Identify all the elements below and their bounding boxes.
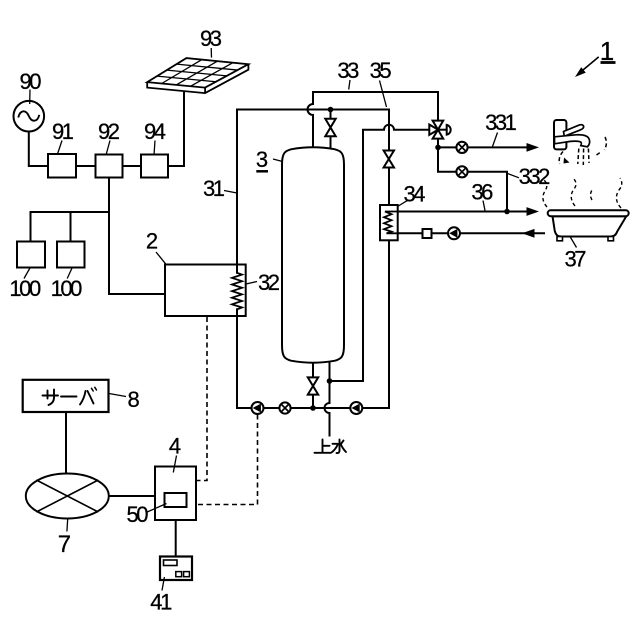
leader 34 xyxy=(398,200,409,207)
communication unit 50 xyxy=(165,493,187,507)
label server text (katakana drawn strokes) xyxy=(43,387,97,405)
label tap water text (kanji drawn strokes) xyxy=(315,440,347,454)
arrowhead bath return xyxy=(522,229,535,238)
small spray arrow under faucet xyxy=(564,158,570,164)
arrowhead line 36 xyxy=(527,207,540,216)
svg-text:0: 0 xyxy=(29,276,41,301)
faucet icon xyxy=(554,120,590,149)
svg-text:1: 1 xyxy=(505,110,517,135)
wire: box 92 to 94 xyxy=(123,165,142,167)
heat pump unit 2 xyxy=(165,265,246,317)
svg-text:3: 3 xyxy=(210,26,222,51)
steam wisp left of faucet xyxy=(559,152,563,165)
pump (bottom left) xyxy=(252,402,264,414)
leader 90 xyxy=(29,90,31,105)
svg-text:3: 3 xyxy=(256,147,268,172)
component box on return line xyxy=(423,229,432,238)
pipe 31 right vertical (through valve, HX 34) xyxy=(388,110,390,409)
svg-text:1: 1 xyxy=(213,176,225,201)
node on pipe 35 xyxy=(328,107,334,113)
steam above bathtub xyxy=(543,180,547,207)
node below three-way valve xyxy=(435,145,441,151)
leader 35 xyxy=(380,81,387,108)
svg-text:2: 2 xyxy=(146,228,158,253)
shut valve circle (bottom pipe) xyxy=(279,402,290,413)
network ellipse 7 xyxy=(26,474,109,519)
bathtub 37 xyxy=(548,210,629,241)
leader 94 xyxy=(154,141,155,156)
svg-text:1: 1 xyxy=(62,119,74,144)
controller box 4 xyxy=(155,467,196,521)
pipe: tank bottom valve to bottom pipe xyxy=(312,358,314,408)
svg-text:6: 6 xyxy=(481,179,493,204)
node on line 36 xyxy=(504,209,510,215)
svg-text:2: 2 xyxy=(538,164,550,189)
pipe: bathtub return to heat exchanger 34 xyxy=(384,232,544,234)
leader 8 xyxy=(109,394,126,397)
leader 50 xyxy=(146,504,167,513)
wire: box 92 down to heat pump 2 xyxy=(109,178,165,295)
steam marks right of faucet xyxy=(605,137,607,150)
pipe: tank top valve branch from node on pipe 35 xyxy=(330,110,332,152)
svg-text:0: 0 xyxy=(136,502,148,527)
valve (tank top) xyxy=(325,119,335,136)
wire: power line AC source to box 91 xyxy=(29,132,48,166)
wire: controller 4 to remote 41 xyxy=(175,520,177,557)
AC source 90 xyxy=(13,101,44,132)
valve (tank bottom) xyxy=(308,377,318,394)
pipe 33: tank top to line 33 with hop over pipe 35 xyxy=(308,92,439,148)
heat exchanger 34 xyxy=(380,205,398,240)
svg-text:7: 7 xyxy=(58,531,71,558)
solar panel 93 xyxy=(147,64,248,93)
wire: box 91 to 92 xyxy=(76,165,96,167)
load box 100 (left) xyxy=(17,242,45,268)
wire: server 8 to network 7 xyxy=(65,412,67,474)
shut valve circle (line 332) xyxy=(456,166,467,177)
node at tap water junction xyxy=(327,378,333,384)
leader 93 xyxy=(210,48,212,58)
leader 36 xyxy=(483,201,485,211)
leader 91 xyxy=(58,141,63,155)
underline of label 1 xyxy=(601,61,616,64)
node at tank bottom xyxy=(310,405,316,411)
underline of label 3 xyxy=(256,170,268,173)
load box 100 (right) xyxy=(57,242,85,268)
tank 3 xyxy=(282,147,344,362)
svg-text:1: 1 xyxy=(160,590,172,615)
wire: branch to loads 100 xyxy=(31,212,110,242)
three-way valve xyxy=(429,121,443,139)
box 91 xyxy=(48,154,76,178)
svg-text:4: 4 xyxy=(413,182,425,207)
leader 331 xyxy=(493,133,498,147)
pump (bottom right) xyxy=(350,402,362,414)
shut valve circle (line 331) xyxy=(456,142,467,153)
svg-text:0: 0 xyxy=(70,276,82,301)
svg-text:7: 7 xyxy=(574,247,586,272)
dashed control line: heat pump 2 to controller 4 xyxy=(197,317,208,481)
arrowhead line 331 xyxy=(527,143,540,152)
leader 92 xyxy=(106,141,110,156)
leader 7 xyxy=(66,519,69,532)
remote control 41 xyxy=(160,557,192,581)
server box 8 xyxy=(23,380,109,412)
svg-text:5: 5 xyxy=(379,58,391,83)
pipe 36: heat exchanger 34 to bathtub xyxy=(384,211,528,213)
leader 332 xyxy=(508,174,520,178)
pipe 331 to faucet xyxy=(438,146,528,148)
valve (pipe 35) xyxy=(384,151,394,168)
leader 2 xyxy=(156,252,166,264)
pipe: riser x=363 to three-way valve, bottom to tap node xyxy=(330,125,439,381)
leader 31 xyxy=(224,191,237,194)
svg-text:2: 2 xyxy=(268,270,280,295)
box 94 xyxy=(141,155,168,178)
svg-text:4: 4 xyxy=(154,119,166,144)
leader 100 left xyxy=(24,267,31,279)
pipe 31 top xyxy=(237,109,389,111)
pipe: tap water riser with hop over bottom pipe xyxy=(325,355,330,436)
svg-text:0: 0 xyxy=(29,69,41,94)
coil 32 xyxy=(232,273,242,310)
leader 100 right xyxy=(67,267,72,279)
svg-text:8: 8 xyxy=(127,387,139,412)
svg-text:3: 3 xyxy=(347,58,359,83)
leader 4 xyxy=(173,456,176,473)
overall reference arrow 1 xyxy=(580,57,599,73)
wire: box 94 to solar panel 93 xyxy=(168,89,184,166)
leader 32 xyxy=(246,282,257,285)
svg-text:4: 4 xyxy=(169,434,181,459)
leader 3 xyxy=(273,159,283,162)
water stream from faucet xyxy=(578,149,579,165)
svg-text:2: 2 xyxy=(108,119,120,144)
dashed control line: pump to controller 4 xyxy=(197,415,258,505)
pipe 31 left vertical (through heat pump 2, coil gap) xyxy=(236,110,238,409)
pipe 332: three-way valve down, right, down to node on 36 xyxy=(438,139,507,212)
box 92 xyxy=(96,155,123,178)
leader 41 xyxy=(162,577,164,591)
pipe 31 bottom xyxy=(237,407,389,409)
leader 33 xyxy=(349,80,350,90)
wire: network 7 to controller 4 xyxy=(109,495,155,497)
leader 37 xyxy=(570,237,577,248)
pump (bath return) xyxy=(448,227,460,239)
